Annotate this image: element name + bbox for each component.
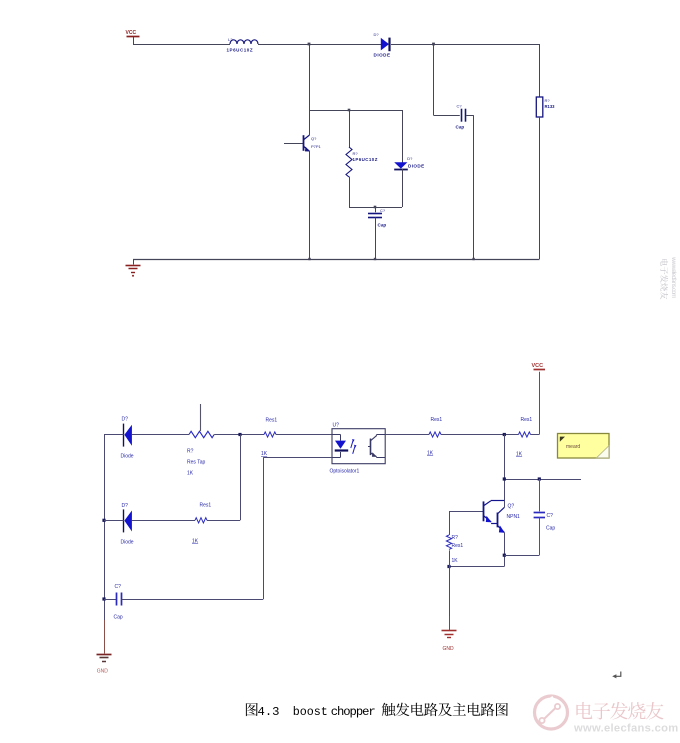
svg-text:Res1: Res1: [521, 417, 533, 423]
capacitor C1 Cap: [456, 104, 466, 130]
wire emitter to cap: [504, 555, 539, 557]
svg-text:www.elecfans.com: www.elecfans.com: [670, 256, 677, 299]
svg-text:VCC: VCC: [126, 30, 137, 36]
svg-text:U?: U?: [333, 423, 340, 429]
svg-text:NPN1: NPN1: [507, 514, 521, 520]
svg-text:R?: R?: [353, 151, 359, 156]
watermark right edge (elecfans): [660, 256, 677, 299]
resistor R6 Res1 1K (inline): [516, 417, 532, 458]
svg-text:4.3: 4.3: [258, 705, 280, 719]
wire emitter down: [504, 532, 506, 566]
svg-text:Q?: Q?: [508, 504, 515, 510]
svg-text:Res Tap: Res Tap: [187, 460, 205, 466]
wire VCC drop: [539, 372, 541, 435]
svg-text:Cap: Cap: [114, 615, 123, 621]
svg-text:D?: D?: [374, 32, 380, 37]
wire ground bus: [133, 259, 540, 261]
svg-text:GND: GND: [443, 646, 455, 652]
transistor Q3 NPN1 (darlington second): [497, 504, 520, 533]
wire cap to opto: [122, 599, 264, 601]
svg-text:Cap: Cap: [378, 223, 387, 228]
svg-text:1K: 1K: [192, 539, 199, 545]
wire to opto pin1: [276, 434, 332, 436]
svg-text:boost: boost: [293, 705, 328, 719]
diode D4 Diode: [104, 503, 195, 546]
wire cap2 to bus: [375, 218, 377, 260]
wire cap rise: [263, 457, 265, 599]
svg-text:C?: C?: [380, 208, 386, 213]
svg-text:1P6UC10Z: 1P6UC10Z: [353, 157, 378, 162]
wire top rail right: [391, 44, 540, 46]
wire mid rail vertical: [240, 435, 242, 521]
ground GND right: [442, 631, 457, 653]
svg-text:1P6UC10Z: 1P6UC10Z: [227, 48, 254, 53]
svg-text:Res1: Res1: [431, 417, 443, 423]
svg-text:R133: R133: [545, 104, 556, 109]
svg-text:1K: 1K: [187, 471, 194, 477]
wire node bar: [310, 110, 403, 112]
svg-text:1K: 1K: [261, 451, 268, 457]
caption: 图4.3 boost chopper trigger + main circuit: [246, 703, 508, 719]
svg-text:1K: 1K: [427, 451, 434, 457]
diode D1 DIODE: [374, 32, 391, 58]
svg-text:L?: L?: [228, 37, 233, 42]
wire emitter to bus: [309, 151, 311, 259]
svg-text:C?: C?: [115, 584, 122, 590]
wire opto pin4 out: [385, 434, 429, 436]
resistor R2 1P6UC10Z: [346, 110, 378, 207]
wire resistor bottom link: [449, 566, 504, 568]
diode D2 DIODE (down): [394, 110, 424, 207]
svg-text:Q?: Q?: [311, 136, 317, 141]
wire loop bottom: [349, 207, 402, 209]
svg-text:Diode: Diode: [121, 540, 134, 546]
node junction A: [308, 43, 311, 46]
wire cap1 to bus: [466, 115, 473, 117]
svg-text:R?: R?: [545, 98, 551, 103]
wire node C drop: [504, 435, 506, 508]
svg-text:R?: R?: [187, 449, 194, 455]
ground top circuit: [126, 259, 141, 277]
power VCC top-left: [126, 30, 140, 44]
capacitor C5 Cap: [104, 584, 123, 621]
transistor Q2 (darlington first): [449, 501, 504, 524]
svg-text:www.elecfans.com: www.elecfans.com: [573, 723, 679, 735]
svg-text:VCC: VCC: [532, 363, 544, 369]
svg-text:DIODE: DIODE: [408, 163, 425, 168]
wire opto pin2: [263, 457, 332, 459]
svg-text:D?: D?: [122, 503, 129, 509]
svg-text:1K: 1K: [516, 452, 523, 458]
wire to ground: [449, 567, 451, 617]
resistor R1 R133 (load): [536, 97, 555, 117]
svg-text:1K: 1K: [452, 558, 459, 564]
wire top rail mid: [258, 44, 381, 46]
svg-text:D?: D?: [407, 156, 413, 161]
wire to mid rail: [207, 520, 240, 522]
svg-text:P7P1: P7P1: [311, 144, 322, 149]
diode D3 Diode: [104, 417, 189, 460]
svg-text:Res1: Res1: [200, 503, 212, 509]
wire right leg bottom: [539, 117, 541, 259]
optocoupler U1 Optoisolator1: [330, 423, 386, 475]
wire right leg top: [539, 44, 541, 97]
svg-text:C?: C?: [547, 513, 554, 519]
capacitor C2 Cap: [368, 207, 386, 228]
paragraph return mark: [612, 672, 621, 679]
svg-text:meard: meard: [566, 444, 580, 450]
resistor R5 Res1 1K (inline): [427, 417, 442, 457]
logo elecfans bottom-right: [535, 696, 679, 735]
resistor R4 Res1 1K (inline): [261, 418, 277, 458]
wire collector drop: [309, 44, 311, 110]
capacitor C4 Cap: [534, 479, 556, 555]
note (yellow sticky): [558, 434, 610, 459]
wire collector bar: [504, 479, 581, 481]
wire: [214, 434, 264, 436]
svg-text:DIODE: DIODE: [374, 53, 391, 58]
inductor L1 1P6UC10Z: [227, 37, 259, 53]
svg-text:R?: R?: [452, 535, 459, 541]
svg-text:Res1: Res1: [266, 418, 278, 424]
resistor R7 Res1 1K (vertical): [446, 511, 463, 566]
transistor Q1 P7P1: [284, 110, 322, 152]
wire left rail: [104, 435, 106, 621]
power VCC bottom circuit: [532, 363, 546, 370]
svg-text:Diode: Diode: [121, 454, 134, 460]
wire node B drop: [433, 44, 435, 115]
svg-text:chopper: chopper: [331, 705, 376, 719]
resistor R8 Res1 1K (inline): [192, 503, 211, 545]
svg-text:Cap: Cap: [546, 526, 555, 532]
svg-text:C?: C?: [457, 104, 463, 109]
svg-text:Optoisolator1: Optoisolator1: [330, 468, 360, 474]
node junction B: [432, 43, 435, 46]
svg-text:Cap: Cap: [456, 125, 465, 130]
wire to node C: [441, 434, 519, 436]
svg-text:D?: D?: [122, 417, 129, 423]
ground GND left: [97, 655, 112, 675]
wire top rail left: [133, 44, 230, 46]
potentiometer R3 Res Tap 1K: [187, 404, 214, 477]
svg-text:Res1: Res1: [452, 543, 464, 549]
svg-text:GND: GND: [97, 669, 109, 675]
wire to VCC corner: [531, 434, 540, 436]
